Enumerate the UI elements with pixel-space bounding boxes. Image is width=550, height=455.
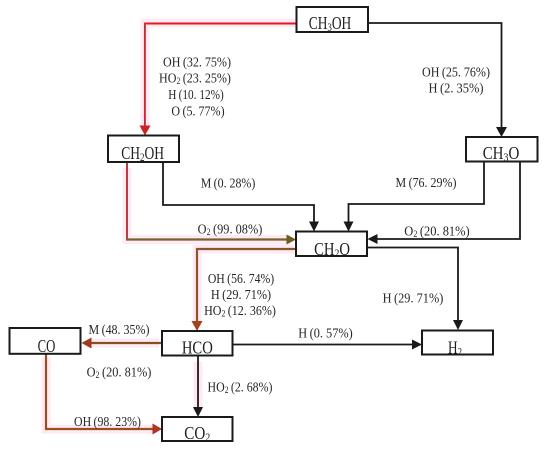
node CO2 [162, 417, 233, 444]
wire HCO to CO2, HO2(2.68%) (black) [193, 356, 203, 418]
label HO2(2.68%) [208, 379, 273, 396]
wire CH3O to CH2O, O2(20.81%) (black) [368, 162, 521, 245]
node CH3O [466, 137, 538, 164]
label O2(99.08%) [198, 221, 263, 237]
svg-text:H (2. 35%): H (2. 35%) [429, 80, 484, 96]
label HO2(12.36%) [204, 302, 276, 319]
svg-text:OH (98. 23%): OH (98. 23%) [74, 413, 141, 429]
node CO [10, 328, 81, 357]
wire CH2OH to CH2O, M(0.28%) (black) [163, 162, 319, 232]
svg-text:M (48. 35%): M (48. 35%) [89, 321, 150, 337]
svg-text:HO2 (2. 68%): HO2 (2. 68%) [208, 379, 273, 396]
label M(76.29%) [396, 174, 457, 190]
node CH3OH [297, 7, 369, 34]
label H(29.71%) mid [211, 286, 271, 302]
label HO2(23.25%) [159, 70, 231, 86]
label OH(32.75%) [163, 54, 231, 70]
svg-text:CO: CO [38, 337, 56, 357]
wire CH2OH to CH2O, O2(99.08%) (red then brown) [126, 162, 296, 245]
label OH(25.76%) [422, 64, 490, 80]
wire HCO to H2, H(0.57%) (black) [233, 340, 423, 350]
label H(10.12%) [168, 87, 224, 102]
svg-text:M (76. 29%): M (76. 29%) [396, 174, 457, 190]
svg-text:H (29. 71%): H (29. 71%) [383, 290, 444, 306]
wire CH3OH to CH2OH (red) [140, 23, 297, 136]
label H(29.71%) right [383, 290, 444, 306]
label O2(20.81%) left [87, 364, 152, 380]
wire CH2O to H2, H(29.71%) (black) [367, 248, 463, 331]
wire CO to CO2, OH(98.23%) (brown, red arrow) [46, 354, 162, 435]
svg-text:M (0. 28%): M (0. 28%) [201, 174, 256, 190]
svg-text:O (5. 77%): O (5. 77%) [171, 103, 224, 119]
svg-text:HCO: HCO [182, 337, 213, 358]
wire CH3OH to CH3O (black) [368, 23, 507, 137]
svg-text:OH (25. 76%): OH (25. 76%) [422, 64, 490, 80]
wire HCO to CO, M(48.35%) (brown, red arrow) [82, 338, 163, 349]
svg-text:OH (56. 74%): OH (56. 74%) [208, 270, 274, 286]
svg-text:HO2 (12. 36%): HO2 (12. 36%) [204, 302, 276, 319]
svg-text:H (0. 57%): H (0. 57%) [298, 325, 352, 341]
label OH(98.23%) [74, 413, 141, 429]
label M(48.35%) [89, 321, 150, 337]
node H2 [422, 331, 493, 359]
label H(0.57%) [298, 325, 352, 341]
pink jpeg-halo glows [46, 23, 296, 429]
svg-text:H (29. 71%): H (29. 71%) [211, 286, 271, 302]
wire CH2O to HCO (brown, red arrow) [192, 249, 297, 331]
node CH2OH [108, 136, 179, 165]
label O2(20.81%) right [404, 223, 469, 239]
node HCO [162, 331, 233, 358]
label OH(56.74%) [208, 270, 274, 286]
svg-text:HO2 (23. 25%): HO2 (23. 25%) [159, 70, 231, 86]
node CH2O [296, 232, 367, 261]
svg-text:CH2O: CH2O [314, 238, 350, 260]
svg-text:OH (32. 75%): OH (32. 75%) [163, 54, 231, 70]
wire CH3O to CH2O, M(76.29%) (black) [344, 162, 485, 232]
label O(5.77%) [171, 103, 224, 119]
svg-text:H (10. 12%): H (10. 12%) [168, 87, 224, 102]
label H(2.35%) [429, 80, 484, 96]
svg-text:CH3O: CH3O [483, 143, 520, 165]
label M(0.28%) [201, 174, 256, 190]
